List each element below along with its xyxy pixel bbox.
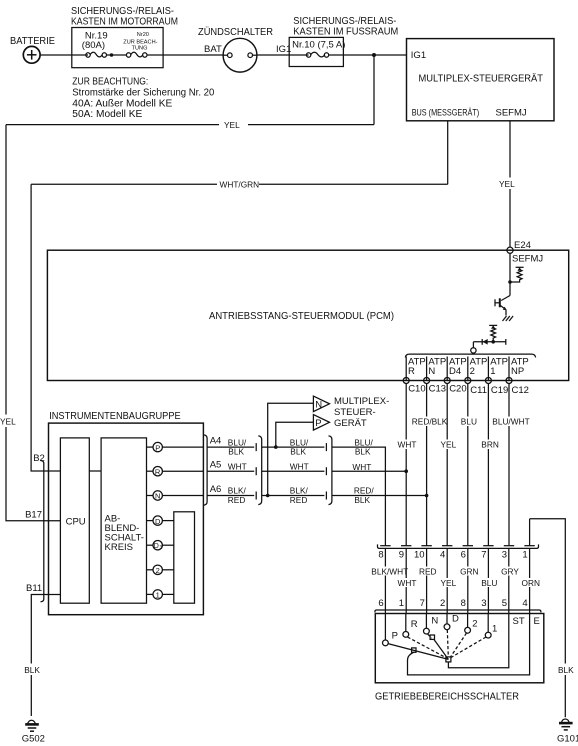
svg-text:WHT: WHT [352,462,371,472]
contact N [424,628,430,634]
node on ATP bracket [471,348,476,353]
svg-text:YEL: YEL [499,179,515,189]
BLK label right side [557,664,575,676]
multiplex unit label at buffers [334,396,389,429]
wire color label BLU [480,578,497,588]
svg-text:B2: B2 [33,453,45,464]
svg-text:WHT: WHT [228,462,247,472]
pin ATP R [408,357,426,378]
ATP pin group bracket [405,354,535,357]
wire battery to fuse box [40,54,88,56]
svg-text:B11: B11 [26,583,42,594]
svg-text:C13: C13 [429,384,446,395]
YEL rail to left side [6,119,374,131]
svg-text:MULTIPLEX-STEUERGERÄT: MULTIPLEX-STEUERGERÄT [419,73,544,85]
buffer P [313,415,329,431]
ground (internal) [503,316,514,321]
svg-text:GETRIEBEBEREICHSSCHALTER: GETRIEBEBEREICHSSCHALTER [375,692,519,703]
contact 2 [465,627,471,633]
wires between connectors [385,548,529,613]
wire A4 row segment 2 with BLU/BLK label [262,437,327,456]
pin ATP N [428,357,446,378]
svg-text:YEL: YEL [441,440,457,450]
pin B17 [25,510,42,521]
svg-text:YEL: YEL [0,417,16,427]
svg-text:8: 8 [461,598,466,609]
svg-text:BAT: BAT [204,44,222,55]
svg-text:E: E [534,616,540,627]
junction P-buffer tap [274,445,278,449]
wire A6 row segment 3 with RED/BLK label, joins C13 wire [332,486,427,505]
wire junction down to YEL rail [373,55,375,125]
inline connector T-bars (upper row) [380,545,535,547]
svg-text:BLK: BLK [355,447,371,457]
wire across to right edge [530,519,566,717]
cluster connector bracket A [204,435,207,505]
svg-text:7: 7 [420,598,425,609]
svg-text:Stromstärke der Sicherung Nr.: Stromstärke der Sicherung Nr. 20 [72,88,214,99]
svg-text:ZÜNDSCHALTER: ZÜNDSCHALTER [198,26,273,38]
svg-text:R: R [408,366,415,377]
dashed line pivot to 1 [451,637,486,658]
svg-text:1: 1 [156,591,160,600]
svg-text:SICHERUNGS-/RELAIS-: SICHERUNGS-/RELAIS- [71,6,174,17]
wire A4 row segment 3 with BLU/BLK label, turns down [332,437,385,545]
dashed line pivot to D [447,630,448,657]
switch wires into box [385,614,488,641]
svg-text:B17: B17 [25,510,42,521]
wire A4 row segment 1 with BLU/BLK label [207,437,256,456]
resistor R1 [510,269,522,282]
svg-text:D: D [452,614,459,625]
svg-text:50A: Modell KE: 50A: Modell KE [72,109,142,120]
junction RED/BLK at C13 wire [425,494,429,498]
svg-text:N: N [428,366,435,377]
connector pin numbers upper: 8 9 10 4 6 7 3 1 [378,550,527,561]
svg-text:1: 1 [492,624,497,635]
svg-text:SEFMJ: SEFMJ [496,107,527,118]
svg-text:KREIS: KREIS [105,542,134,553]
svg-text:BLK: BLK [558,665,574,675]
contact P [383,640,389,646]
contact point square on wiper (E) [412,648,416,652]
junction resistor to sense line [491,340,495,344]
svg-text:YEL: YEL [441,578,457,588]
note text block [72,77,214,121]
ATP pin cells [406,357,509,381]
junction WHT at C10 wire [404,469,408,473]
svg-text:SICHERUNGS-/RELAIS-: SICHERUNGS-/RELAIS- [293,16,396,27]
wire WHT/GRN rail down left side to B2 [31,184,60,471]
wire C13 RED/BLK down [411,384,448,546]
ground G502 [22,720,45,744]
indicator D3 [147,541,174,552]
wire C11 BLU down [460,384,477,546]
svg-text:5: 5 [502,598,507,609]
svg-text:C10: C10 [408,384,425,395]
svg-text:BLK/WHT: BLK/WHT [371,567,408,577]
connector bracket 2 [258,436,261,505]
svg-text:ORN: ORN [522,578,540,588]
svg-text:GRN: GRN [460,567,478,577]
svg-text:WHT: WHT [398,578,417,588]
svg-text:KASTEN IM FUSSRAUM: KASTEN IM FUSSRAUM [293,27,398,38]
svg-text:D: D [155,517,161,526]
pin circles C10 C13 C20 C11 C19 C12 [403,378,512,384]
WHT/GRN rail to left side [31,178,448,190]
pin labels C10 C13 C20 C11 C19 C12 [408,384,529,397]
svg-text:A4: A4 [210,436,222,447]
dashed line pivot to R [408,637,447,658]
junction resistor to SEFMJ line [508,280,512,284]
svg-text:3: 3 [502,550,507,561]
svg-text:2: 2 [440,598,445,609]
svg-text:6: 6 [461,550,466,561]
wire color label GRY [500,567,519,577]
svg-text:TUNG: TUNG [132,46,148,52]
connector bracket 3 [329,436,332,505]
svg-text:ST: ST [513,616,525,627]
wire A5 row segment 1 with WHT label [207,462,256,476]
wire A6 row segment 2 with BLK/RED label [262,486,327,505]
svg-text:NP: NP [511,366,524,377]
svg-text:BLK: BLK [228,447,244,457]
svg-text:Nr.10 (7,5 A): Nr.10 (7,5 A) [292,40,345,51]
wire diode to ATP NP node [472,342,474,348]
connector bracket left of cluster [41,461,44,602]
svg-text:GRY: GRY [501,567,519,577]
svg-text:C12: C12 [512,385,529,396]
pin ATP 2 [470,357,488,378]
battery B1 [10,36,55,63]
wire A6 row segment 1 with BLK/RED label [207,486,256,505]
multiplex control unit [407,39,555,121]
svg-text:1: 1 [490,366,495,377]
indicator P [147,442,204,452]
wire A5 row segment 2 with WHT label [262,462,327,476]
junction to YEL feed [372,53,376,57]
svg-text:(80A): (80A) [82,40,105,51]
ignition switch [198,26,291,72]
indicator D [147,516,174,526]
indicator 2 [147,565,174,575]
svg-text:P: P [155,443,160,452]
svg-text:RED: RED [290,495,308,505]
svg-text:ZUR BEACH-: ZUR BEACH- [123,40,157,46]
contact D [444,624,450,630]
svg-text:WHT: WHT [290,462,309,472]
svg-text:10: 10 [414,550,425,561]
svg-text:7: 7 [481,550,486,561]
svg-text:BLU: BLU [481,578,497,588]
wire color label WHT [397,578,417,588]
wire C20 YEL down [439,384,457,546]
svg-text:KASTEN IM MOTORRAUM: KASTEN IM MOTORRAUM [71,17,178,28]
svg-text:SEFMJ: SEFMJ [512,254,543,265]
svg-text:A6: A6 [210,484,222,495]
svg-text:MULTIPLEX-: MULTIPLEX- [334,396,389,407]
svg-text:IG1: IG1 [411,50,426,61]
svg-text:RED: RED [228,495,246,505]
inline connector bracket (lower) [375,610,541,612]
contact R [403,632,409,638]
instrument cluster [49,411,204,615]
svg-text:BLK: BLK [24,665,40,675]
svg-text:8: 8 [378,550,383,561]
pin ATP NP [511,357,529,378]
contact 1 [485,632,491,638]
indicator 1 [147,590,174,600]
svg-text:4: 4 [522,598,527,609]
svg-text:4: 4 [440,550,445,561]
wire color label BLK/WHT [370,567,408,577]
wire color label GRN [459,567,479,577]
wire pivot to ST pin [448,614,508,668]
svg-text:N: N [155,492,160,501]
svg-text:BLU: BLU [461,417,477,427]
svg-text:3: 3 [160,545,163,551]
wire color label RED [418,567,437,577]
svg-text:STEUER-: STEUER- [334,407,376,418]
transmission range switch box [375,614,544,703]
fuse/relay box engine compartment [71,6,178,68]
svg-text:3: 3 [481,598,486,609]
svg-text:2: 2 [156,566,160,575]
wire BUS (MESSGERAET) down and left [447,121,449,185]
wire YEL rail down left side to B17 [0,125,60,521]
svg-text:D4: D4 [449,366,461,377]
svg-text:1: 1 [522,550,527,561]
svg-text:C11: C11 [470,385,487,396]
svg-text:D: D [154,543,159,550]
svg-text:BLK: BLK [354,495,370,505]
svg-text:RED/BLK: RED/BLK [412,417,448,427]
ground G101 [557,719,578,745]
svg-text:P: P [315,418,321,429]
powertrain control module PCM [47,250,568,380]
switch position letters [392,614,498,642]
wire E24 down inside PCM [509,253,511,295]
wire A5 row segment 3 with WHT label, joins C10 wire [332,462,406,472]
svg-text:6: 6 [378,598,383,609]
svg-text:WHT: WHT [398,440,417,450]
svg-text:ANTRIEBSSTANG-STEUERMODUL (PCM: ANTRIEBSSTANG-STEUERMODUL (PCM) [209,311,394,322]
svg-text:G101: G101 [557,734,578,745]
svg-text:9: 9 [399,550,404,561]
wire C10 WHT down [397,384,417,546]
svg-text:R: R [411,619,418,630]
pin B2 [33,453,45,464]
resistor R2 [491,328,496,342]
wire footwell fuse to multiplex unit IG1 [329,54,407,56]
fuse Nr.10 (7,5A) [292,40,345,58]
solid line square2 to pivot [434,640,448,660]
svg-text:BLK: BLK [290,447,306,457]
svg-text:A5: A5 [210,460,222,471]
wire square E contact to E pin [408,613,530,674]
svg-text:GERÄT: GERÄT [334,418,367,429]
wire color label YEL [439,578,457,588]
wire to N buffer [268,403,314,495]
buffer N [313,396,329,412]
svg-text:P: P [392,631,398,642]
connector pin numbers lower: 6 1 7 2 8 3 5 4 [378,598,527,609]
svg-text:N: N [315,399,322,410]
CPU block [60,438,89,603]
svg-text:INSTRUMENTENBAUGRUPPE: INSTRUMENTENBAUGRUPPE [49,411,181,422]
pin ATP 1 [490,357,508,378]
svg-text:C19: C19 [491,385,508,396]
indicator R [147,467,204,477]
svg-text:WHT/GRN: WHT/GRN [220,180,260,190]
svg-text:Nr20: Nr20 [137,32,149,38]
dimming circuit block [101,438,146,603]
svg-text:RED: RED [419,567,437,577]
svg-text:N: N [431,616,438,627]
pull-up supply 1 [516,267,524,270]
indicator N [147,491,204,501]
connector E24 [507,240,531,253]
sense line with T terminator [473,339,505,345]
fuse/relay box footwell [289,16,398,67]
wire SEFMJ down to E24 [499,121,516,247]
svg-text:C20: C20 [449,384,466,395]
svg-text:R: R [155,467,161,476]
svg-text:CPU: CPU [66,517,86,528]
svg-text:G502: G502 [22,734,45,745]
wire 8th from connector up and right to G101 [529,519,531,546]
wiper arm solid P to pivot [388,644,448,660]
svg-text:BATTERIE: BATTERIE [10,36,55,47]
transistor Q1 [495,296,510,316]
diode D1 [482,339,488,345]
svg-text:BLU/WHT: BLU/WHT [492,417,529,427]
svg-text:BUS (MESSGERÄT): BUS (MESSGERÄT) [412,107,480,118]
junction between fuses [110,53,114,57]
pull-up supply 2 [489,325,497,328]
svg-text:2: 2 [472,619,477,630]
pin B11 [26,583,42,594]
fuse Nr.20 [123,32,163,57]
inline connector bracket (upper) [378,544,539,548]
wire CPU to dimming circuit [89,470,101,472]
svg-text:40A: Außer Modell KE: 40A: Außer Modell KE [72,99,172,110]
dashed line pivot to N [428,634,432,638]
svg-text:ZUR BEACHTUNG:: ZUR BEACHTUNG: [72,77,148,88]
svg-text:BRN: BRN [481,440,499,450]
wire C12 BLU/WHT down [492,384,530,546]
junction N-buffer tap [266,494,270,498]
wire fuse box to ignition switch [163,54,223,56]
wire B11 to ground [24,595,61,717]
wire color label ORN [521,578,540,588]
svg-text:1: 1 [399,598,404,609]
pin ATP D4 [449,357,467,378]
indicator bulb block [174,512,195,603]
wire C19 BRN down [480,384,499,546]
dashed line pivot to 2 [451,633,467,657]
svg-text:2: 2 [470,366,475,377]
fuse Nr.19 (80A) [82,30,127,57]
wire to P buffer [276,422,314,447]
pivot contact [446,657,451,662]
wire ignition to footwell fuse box [257,54,309,56]
svg-text:YEL: YEL [224,120,240,130]
contact point square on N line (ST) [430,635,434,639]
